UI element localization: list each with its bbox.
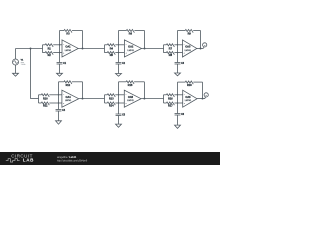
- resistor R3 (feedback): [60, 30, 65, 32]
- footer bar: [0, 152, 220, 165]
- resistor R7: [164, 44, 167, 46]
- wire V1 top lead: [15, 49, 17, 60]
- op-amp OA4: [62, 90, 79, 107]
- wire node vertical stage1: [59, 31, 61, 63]
- capacitor C2: [116, 62, 122, 64]
- wire input bracket stage4: [38, 95, 40, 103]
- wire node vertical stage2: [118, 31, 120, 63]
- svg-text:OA2: OA2: [128, 46, 134, 49]
- resistor R6 (feedback): [119, 30, 127, 32]
- junction output node stage4: [82, 98, 84, 100]
- capacitor C3: [175, 62, 181, 64]
- resistor R16: [164, 94, 167, 96]
- resistor R11: [39, 102, 42, 104]
- wire feedback vertical stage3: [200, 31, 202, 49]
- svg-text:R10: R10: [43, 97, 48, 100]
- wire op-amp input stubs stage1: [60, 44, 63, 46]
- wire output stage6: [197, 98, 205, 100]
- node input tee: [30, 48, 32, 50]
- svg-text:OA6: OA6: [185, 96, 191, 99]
- wire op-amp input stubs stage3: [178, 44, 183, 46]
- op-amp OA2: [124, 40, 141, 57]
- wire output stage3: [197, 48, 203, 50]
- resistor R14: [105, 102, 108, 104]
- svg-text:R18: R18: [187, 84, 192, 87]
- ground stage6: [175, 125, 181, 128]
- node flag OUT2 (row 2 output): [204, 93, 208, 97]
- wire output stage5: [141, 98, 164, 100]
- ground stage3: [175, 73, 181, 76]
- wire flag stub row 2: [205, 97, 206, 99]
- capacitor C5: [116, 113, 122, 115]
- wire output stage2: [142, 48, 164, 50]
- wire op-amp input stubs stage4: [59, 94, 62, 96]
- svg-text:LM741: LM741: [185, 100, 192, 102]
- op-amp OA6: [183, 90, 197, 107]
- ground stage5: [116, 124, 122, 127]
- svg-text:OA1: OA1: [65, 46, 71, 49]
- svg-text:LM741: LM741: [128, 50, 135, 52]
- wire output stage4: [79, 98, 105, 100]
- wire feedback vertical stage6: [202, 82, 204, 99]
- svg-text:OA5: OA5: [128, 96, 134, 99]
- resistor R1: [43, 44, 46, 46]
- wire op-amp input stubs stage5: [119, 94, 125, 96]
- svg-text:1 kHz: 1 kHz: [21, 64, 26, 66]
- svg-text:R15: R15: [128, 84, 133, 87]
- wire input bracket stage2: [104, 45, 106, 53]
- svg-text:R17: R17: [168, 104, 173, 107]
- wire row link vertical: [30, 49, 32, 99]
- capacitor C4: [56, 109, 62, 111]
- svg-text:LM741: LM741: [65, 100, 72, 102]
- wire feedback vertical stage5: [143, 82, 145, 99]
- wire op-amp input stubs stage6: [178, 94, 183, 96]
- wire node vertical stage4: [58, 82, 60, 110]
- ground V1: [13, 73, 19, 76]
- svg-text:OA4: OA4: [66, 96, 72, 99]
- svg-text:R14: R14: [109, 104, 114, 107]
- resistor R5: [105, 52, 108, 54]
- junction output node stage1: [82, 48, 84, 50]
- junction output node stage5: [143, 98, 145, 100]
- svg-text:http://circuitlab.com/c/5h4ye9: http://circuitlab.com/c/5h4ye9: [57, 160, 88, 163]
- junction output node stage2: [144, 48, 146, 50]
- node flag OUT1 (row 1 output): [203, 43, 207, 47]
- capacitor C1: [57, 62, 63, 64]
- op-amp OA1: [62, 40, 78, 57]
- wire input bracket stage3: [163, 45, 165, 53]
- ground stage1: [57, 73, 63, 76]
- wire to stage 4: [31, 98, 39, 100]
- resistor R15 (feedback): [119, 81, 127, 83]
- voltage source V1: [13, 59, 19, 65]
- resistor R17: [164, 102, 167, 104]
- op-amp OA5: [124, 90, 141, 107]
- wire V1 to stage 1: [16, 48, 43, 50]
- junction output node stage3: [200, 48, 202, 50]
- svg-text:LM741: LM741: [65, 50, 72, 52]
- resistor R4: [105, 44, 108, 46]
- wire flag stub row 1: [203, 47, 204, 49]
- op-amp OA3: [183, 40, 197, 57]
- ground stage2: [116, 74, 122, 77]
- wire feedback vertical stage4: [82, 82, 84, 99]
- junction output node stage6: [202, 98, 204, 100]
- wire node vertical stage6: [177, 82, 179, 113]
- wire op-amp input stubs stage2: [119, 44, 125, 46]
- svg-text:OA3: OA3: [185, 46, 191, 49]
- resistor R8: [164, 52, 167, 54]
- resistor R13: [105, 94, 108, 96]
- svg-text:R12: R12: [66, 84, 71, 87]
- wire node vertical stage3: [177, 31, 179, 63]
- wire input bracket stage5: [104, 95, 106, 103]
- wire feedback vertical stage2: [144, 31, 146, 49]
- wire input bracket stage6: [163, 95, 165, 103]
- svg-text:R11: R11: [43, 104, 48, 107]
- wire output stage1: [78, 48, 104, 50]
- resistor R2: [43, 52, 46, 54]
- svg-text:LM741: LM741: [185, 50, 192, 52]
- resistor R9 (feedback): [178, 30, 186, 32]
- svg-text:amgelfra / Lab11: amgelfra / Lab11: [57, 155, 77, 159]
- resistor R10: [39, 94, 42, 96]
- ground stage4: [56, 121, 62, 124]
- resistor R18 (feedback): [178, 81, 186, 83]
- wire V1 bottom lead: [15, 65, 17, 73]
- svg-text:LM741: LM741: [127, 100, 134, 102]
- wire node vertical stage5: [118, 82, 120, 114]
- capacitor C6: [175, 113, 181, 115]
- wire feedback vertical stage1: [82, 31, 84, 49]
- wire input bracket stage1: [42, 45, 44, 53]
- svg-text:R16: R16: [168, 97, 173, 100]
- svg-text:LAB: LAB: [23, 158, 34, 163]
- svg-text:R13: R13: [109, 97, 114, 100]
- resistor R12 (feedback): [59, 81, 64, 83]
